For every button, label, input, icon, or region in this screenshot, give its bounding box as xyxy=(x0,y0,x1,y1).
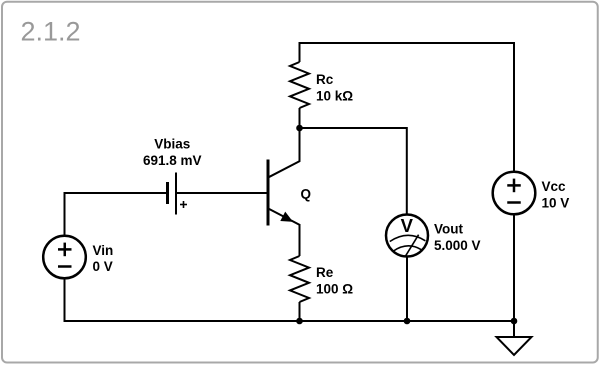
wire Vcc bottom lead xyxy=(513,214,515,321)
meter lower arc xyxy=(393,246,421,251)
svg-text:Vcc: Vcc xyxy=(542,179,567,194)
emitter arrow xyxy=(281,213,292,222)
ground xyxy=(497,321,532,355)
svg-text:Rc: Rc xyxy=(316,72,334,87)
wire node to voltmeter xyxy=(300,128,407,215)
svg-text:10 V: 10 V xyxy=(542,195,570,210)
transistor Q1 xyxy=(268,128,300,256)
emitter diagonal xyxy=(268,208,300,225)
wire Vcc top lead xyxy=(513,42,515,172)
svg-text:2.1.2: 2.1.2 xyxy=(21,16,81,46)
svg-text:Vout: Vout xyxy=(434,222,463,237)
collector diagonal xyxy=(268,161,300,178)
node collector junction xyxy=(296,125,303,132)
resistor Re xyxy=(290,256,309,302)
collector vertical wire xyxy=(299,128,301,162)
plus mark xyxy=(180,204,187,206)
meter needle xyxy=(406,235,419,256)
svg-text:100 Ω: 100 Ω xyxy=(316,282,353,297)
wire Re bottom lead xyxy=(299,302,301,321)
short negative plate xyxy=(166,182,169,204)
long positive plate xyxy=(175,173,177,215)
svg-text:5.000 V: 5.000 V xyxy=(434,238,481,253)
svg-text:V: V xyxy=(401,215,414,236)
node voltmeter-bottom junction xyxy=(404,318,411,325)
meter upper arc xyxy=(390,235,426,241)
node Re-bottom junction xyxy=(296,318,303,325)
battery Vbias xyxy=(168,173,188,215)
wire Vin top lead to battery xyxy=(65,193,167,236)
wire Rc bottom lead xyxy=(299,108,301,128)
svg-text:Vbias: Vbias xyxy=(154,136,190,151)
svg-text:Re: Re xyxy=(316,265,334,280)
resistor Rc xyxy=(290,62,309,108)
wire Rc top lead xyxy=(299,42,301,62)
voltage source Vcc xyxy=(493,172,536,215)
wire voltmeter bottom lead xyxy=(406,257,408,322)
svg-text:Vin: Vin xyxy=(93,243,114,258)
voltage source Vin xyxy=(43,236,86,279)
wire bottom rail xyxy=(65,278,515,321)
voltmeter Vout xyxy=(386,215,428,257)
base bar xyxy=(267,160,270,226)
svg-text:10 kΩ: 10 kΩ xyxy=(316,89,353,104)
wire top rail xyxy=(300,42,515,44)
emitter vertical wire xyxy=(299,224,301,256)
svg-text:Q: Q xyxy=(301,187,312,202)
svg-text:691.8 mV: 691.8 mV xyxy=(143,153,202,168)
wire battery to base xyxy=(176,192,267,194)
node ground junction xyxy=(511,318,518,325)
svg-text:0 V: 0 V xyxy=(93,259,113,274)
